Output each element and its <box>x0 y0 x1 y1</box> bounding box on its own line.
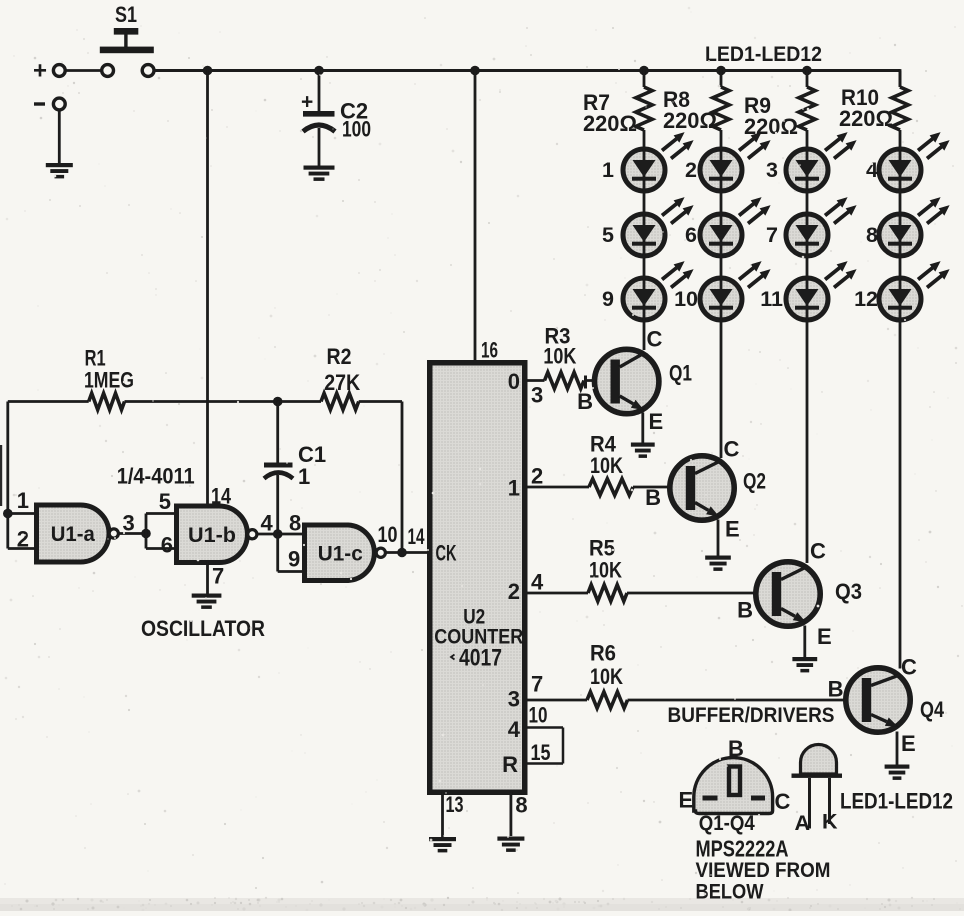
svg-text:9: 9 <box>288 547 300 572</box>
LED 7 <box>766 197 857 256</box>
svg-text:+: + <box>33 58 47 85</box>
wire rail to U1-b pin14 <box>206 71 209 508</box>
svg-text:E: E <box>679 788 694 813</box>
pin 4 / 10 and reset loop to pin R / 15 <box>502 703 563 778</box>
ground battery <box>46 163 73 178</box>
svg-text:U1-c: U1-c <box>318 542 363 565</box>
svg-text:3: 3 <box>508 687 520 712</box>
transistor Q1 <box>577 327 692 435</box>
switch terminal left <box>102 65 114 77</box>
svg-text:LED1-LED12: LED1-LED12 <box>840 789 953 814</box>
svg-text:B: B <box>737 598 753 623</box>
svg-text:2: 2 <box>685 158 697 182</box>
node rail/R7 <box>639 66 649 76</box>
svg-text:10: 10 <box>529 703 548 728</box>
svg-text:2: 2 <box>531 464 543 489</box>
node CK/R2 <box>397 524 425 557</box>
resistor R2 <box>278 344 402 410</box>
wire + to switch <box>66 69 101 72</box>
svg-text:1: 1 <box>298 464 310 489</box>
LED 8 <box>866 197 950 256</box>
svg-text:Q1: Q1 <box>669 361 692 386</box>
LED 11 <box>760 261 856 320</box>
svg-text:R2: R2 <box>327 344 352 369</box>
wire to U1-c inputs <box>278 511 305 572</box>
svg-text:5: 5 <box>602 223 614 247</box>
wire Q1 emitter <box>641 413 644 444</box>
LED 10 <box>674 261 771 320</box>
node rail/U1b-14 <box>203 66 213 76</box>
ground Q4 <box>885 765 910 780</box>
svg-text:220Ω: 220Ω <box>663 108 717 133</box>
wire Q4 emitter <box>896 732 899 766</box>
svg-text:BELOW: BELOW <box>696 880 765 904</box>
svg-text:R6: R6 <box>590 641 616 666</box>
resistor R10 <box>839 71 908 150</box>
svg-text:Q2: Q2 <box>743 469 766 494</box>
resistor R4 <box>527 432 686 496</box>
svg-text:U1-a: U1-a <box>51 523 95 546</box>
svg-text:B: B <box>728 736 744 761</box>
svg-text:K: K <box>822 810 838 834</box>
svg-text:10K: 10K <box>590 453 623 478</box>
pin 2 / 4 <box>508 570 544 605</box>
svg-text:4: 4 <box>866 158 878 182</box>
wire LED column <box>643 147 646 350</box>
svg-text:C: C <box>647 327 663 352</box>
wire R2 down to CK node <box>401 402 404 553</box>
svg-text:4: 4 <box>531 570 544 595</box>
node U1-a inputs <box>3 509 13 519</box>
scan edge artifact left <box>0 445 2 506</box>
legend transistor package Q1-Q4 <box>679 736 831 904</box>
transistor Q4 <box>828 655 945 757</box>
wire rail to 4017 pin16 <box>474 71 477 364</box>
resistor R8 <box>663 71 729 150</box>
legend LED package <box>792 745 954 836</box>
capacitor C1 <box>264 402 326 535</box>
nand gate U1-c <box>305 525 386 581</box>
svg-text:2: 2 <box>508 579 520 604</box>
svg-text:14: 14 <box>211 484 232 509</box>
wire to U1-b inputs <box>146 489 177 558</box>
node rail/pin16 <box>470 66 480 76</box>
svg-text:E: E <box>901 731 916 756</box>
svg-text:OSCILLATOR: OSCILLATOR <box>141 616 265 641</box>
pin 8 ground <box>497 792 527 852</box>
LED 9 <box>602 261 694 320</box>
wire rail corner to R10 <box>899 69 902 87</box>
svg-text:E: E <box>649 409 664 434</box>
svg-text:9: 9 <box>602 287 614 311</box>
wire U1-b output <box>257 511 278 536</box>
resistor R3 <box>527 324 611 389</box>
pin 3 / 7 <box>508 672 544 712</box>
wire LED column <box>899 147 902 669</box>
svg-text:10K: 10K <box>590 664 623 689</box>
battery + terminal <box>33 58 65 85</box>
svg-text:5: 5 <box>159 489 171 514</box>
wire U1-a output <box>119 511 147 536</box>
resistor R6 <box>527 641 862 709</box>
svg-text:3: 3 <box>123 511 135 536</box>
svg-text:12: 12 <box>854 287 878 311</box>
svg-text:C: C <box>775 789 791 814</box>
svg-text:10: 10 <box>674 287 698 311</box>
tick Q1 base lead <box>584 376 587 389</box>
nand gate U1-a <box>17 488 119 562</box>
resistor R5 <box>527 536 772 602</box>
battery - terminal <box>34 98 65 110</box>
LED 12 <box>854 261 950 320</box>
svg-text:LED1-LED12: LED1-LED12 <box>705 42 822 66</box>
wire - terminal down <box>58 111 61 164</box>
wire U1-c output to CK <box>378 522 428 553</box>
resistor R9 <box>744 71 815 150</box>
svg-text:C: C <box>724 437 740 462</box>
svg-text:11: 11 <box>760 287 783 311</box>
svg-text:Q3: Q3 <box>835 579 862 604</box>
label OSCILLATOR <box>141 616 265 641</box>
pin 0 / 3 <box>508 369 544 408</box>
svg-text:B: B <box>645 485 661 510</box>
svg-text:10: 10 <box>378 522 398 547</box>
wire Q3 emitter <box>803 626 806 658</box>
resistor R7 <box>583 71 652 150</box>
LED 1 <box>602 132 694 191</box>
switch S1 <box>100 2 154 53</box>
svg-text:1: 1 <box>508 476 520 501</box>
svg-text:4: 4 <box>508 717 521 742</box>
svg-text:13: 13 <box>446 792 464 817</box>
svg-text:8: 8 <box>515 793 527 818</box>
svg-text:E: E <box>725 517 740 542</box>
svg-text:100: 100 <box>342 117 371 142</box>
wire Q2 emitter <box>717 520 720 557</box>
svg-text:6: 6 <box>161 533 173 558</box>
svg-text:0: 0 <box>508 369 520 394</box>
switch terminal right <box>142 65 154 77</box>
svg-text:10K: 10K <box>543 344 576 369</box>
svg-text:1/4-4011: 1/4-4011 <box>117 464 195 489</box>
svg-text:8: 8 <box>289 511 301 536</box>
ground U1-b <box>192 594 222 609</box>
wire top supply rail <box>155 69 901 72</box>
svg-text:7: 7 <box>766 223 778 247</box>
svg-text:8: 8 <box>866 223 878 247</box>
svg-text:+: + <box>301 91 313 114</box>
svg-text:3: 3 <box>766 158 778 182</box>
node rail/C2 <box>314 66 324 76</box>
svg-text:1: 1 <box>602 158 614 182</box>
svg-text:4: 4 <box>261 511 274 536</box>
svg-text:14: 14 <box>408 524 426 549</box>
svg-text:220Ω: 220Ω <box>839 106 893 131</box>
svg-text:1MEG: 1MEG <box>84 368 134 393</box>
svg-text:1: 1 <box>17 488 29 513</box>
svg-text:CK: CK <box>436 541 457 566</box>
wire feedback left vertical <box>8 402 37 549</box>
node rail/R9 <box>802 66 812 76</box>
svg-text:BUFFER/DRIVERS: BUFFER/DRIVERS <box>668 703 835 727</box>
svg-text:7: 7 <box>212 564 224 589</box>
LED 6 <box>685 197 771 256</box>
svg-text:U1-b: U1-b <box>188 524 236 547</box>
svg-text:S1: S1 <box>115 2 137 27</box>
svg-text:2: 2 <box>17 527 29 552</box>
svg-text:B: B <box>577 389 593 414</box>
LED 5 <box>602 197 694 256</box>
wire U1-b pin7 to ground <box>206 563 209 595</box>
IC U2 4017 counter <box>430 338 525 793</box>
resistor R1 <box>8 346 278 410</box>
svg-text:27K: 27K <box>324 370 360 395</box>
capacitor C2 <box>301 71 371 167</box>
label BUFFER/DRIVERS <box>668 703 835 727</box>
node R1/R2/C1 <box>273 397 283 407</box>
svg-text:C: C <box>901 655 917 680</box>
LED 2 <box>685 132 771 191</box>
svg-text:15: 15 <box>531 740 551 765</box>
svg-text:R: R <box>502 752 518 777</box>
ground C2 <box>304 166 335 181</box>
svg-text:16: 16 <box>481 338 498 363</box>
svg-text:Q4: Q4 <box>920 697 945 722</box>
node pin3/5/6 <box>141 529 151 539</box>
svg-text:C: C <box>810 539 826 564</box>
svg-text:4017: 4017 <box>459 645 502 672</box>
transistor Q2 <box>645 437 766 542</box>
LED 3 <box>766 132 857 191</box>
svg-text:3: 3 <box>531 383 543 408</box>
wire LED column <box>806 147 809 563</box>
svg-text:7: 7 <box>531 672 543 697</box>
label LED1-LED12 top <box>705 42 822 66</box>
LED 4 <box>866 132 950 191</box>
svg-text:B: B <box>828 677 844 702</box>
svg-text:Q1-Q4: Q1-Q4 <box>699 811 755 835</box>
pin 1 / 2 <box>508 464 544 501</box>
scan edge band <box>0 898 964 911</box>
pin 13 ground <box>429 792 464 852</box>
svg-text:E: E <box>817 624 832 649</box>
svg-text:10K: 10K <box>589 558 622 583</box>
nand gate U1-b <box>177 484 257 589</box>
ground Q1 <box>631 443 655 458</box>
wire LED column <box>720 147 723 458</box>
transistor Q3 <box>737 539 862 650</box>
ground Q2 <box>705 556 731 571</box>
svg-text:220Ω: 220Ω <box>583 111 637 136</box>
svg-text:A: A <box>795 811 811 835</box>
svg-text:6: 6 <box>685 223 697 247</box>
label 1/4-4011 <box>117 464 195 489</box>
ground Q3 <box>792 657 817 672</box>
svg-text:VIEWED FROM: VIEWED FROM <box>696 858 831 882</box>
node rail/R8 <box>716 66 726 76</box>
node pin4/C1/8-9 <box>273 529 283 539</box>
